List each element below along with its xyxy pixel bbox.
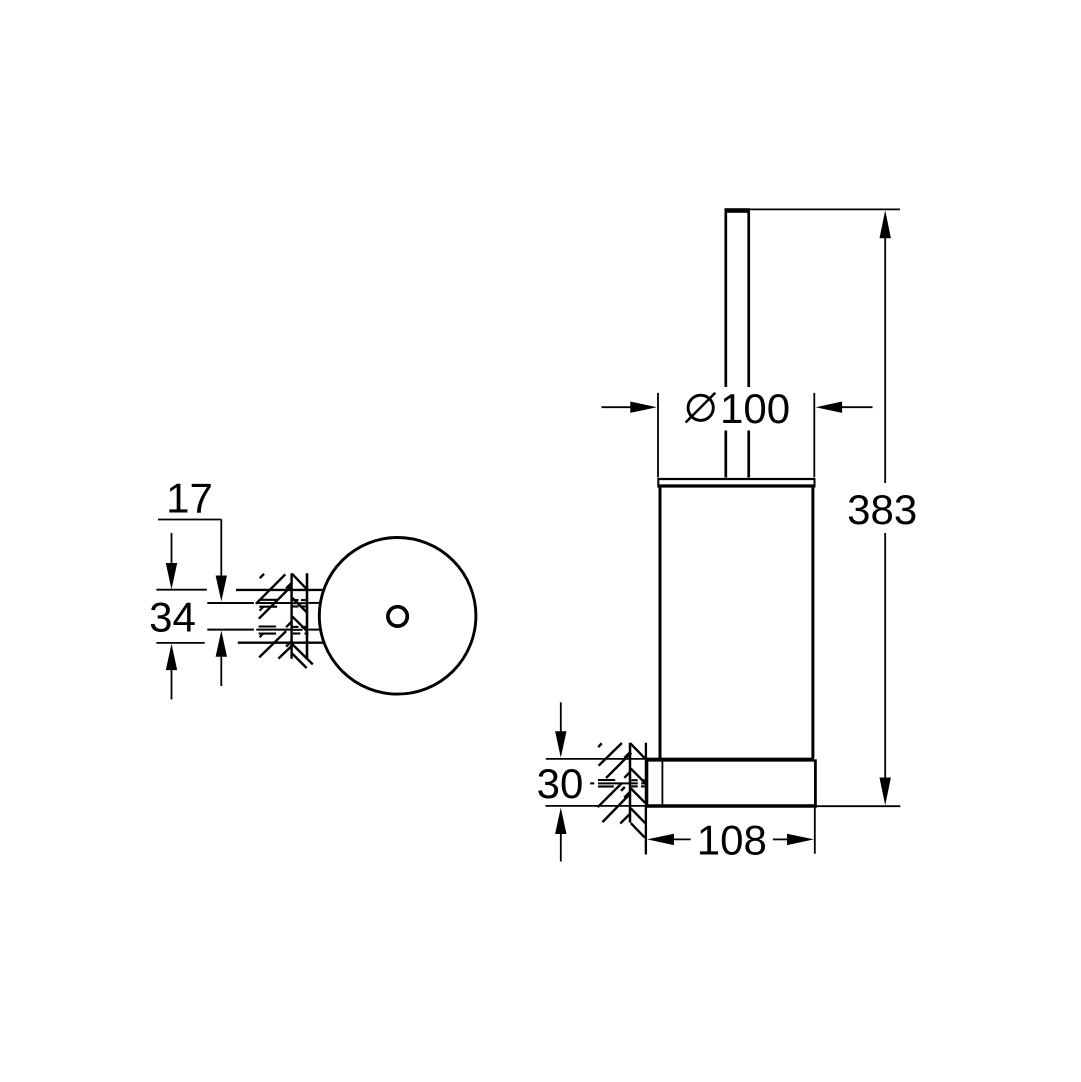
svg-text:100: 100	[720, 385, 790, 432]
svg-text:30: 30	[537, 760, 584, 807]
svg-text:34: 34	[149, 593, 196, 640]
svg-text:383: 383	[847, 486, 917, 533]
svg-text:17: 17	[166, 475, 213, 522]
svg-text:108: 108	[697, 816, 767, 863]
